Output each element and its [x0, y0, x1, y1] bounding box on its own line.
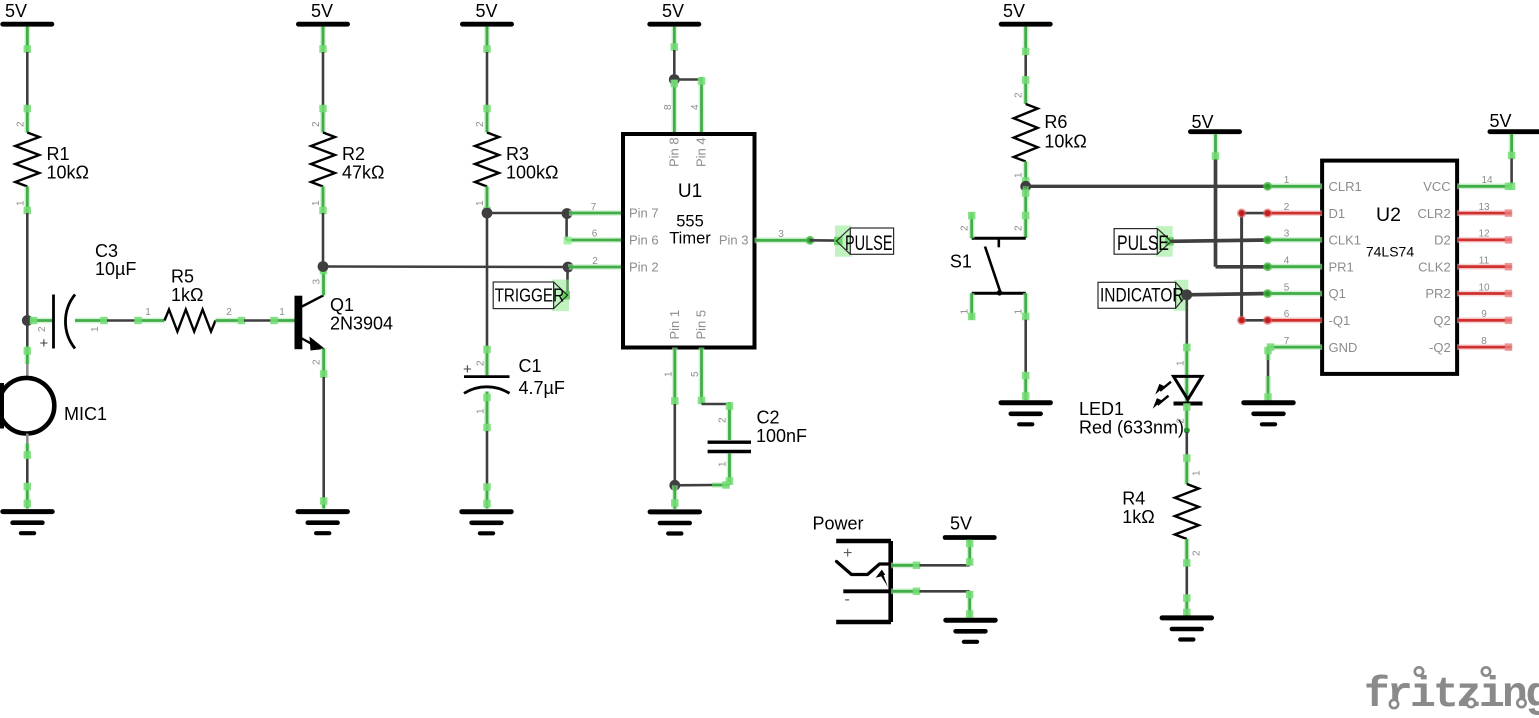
svg-text:1: 1	[717, 461, 728, 467]
svg-text:R5: R5	[171, 267, 194, 287]
pin	[320, 497, 328, 508]
wire	[322, 52, 325, 106]
svg-text:Pin 1: Pin 1	[667, 310, 682, 340]
wire	[1216, 160, 1268, 267]
resistor R3	[475, 105, 559, 215]
node junction pin2	[563, 262, 574, 273]
svg-text:-: -	[845, 591, 850, 608]
svg-text:Pin 5: Pin 5	[694, 310, 709, 340]
wire	[675, 481, 730, 489]
pin	[24, 483, 32, 509]
svg-text:100nF: 100nF	[756, 426, 807, 446]
svg-text:1: 1	[145, 307, 151, 318]
net label TRIGGER	[493, 280, 570, 312]
wire	[1171, 240, 1267, 241]
wire	[322, 213, 325, 267]
power 5V rail (R6 column)	[1001, 1, 1050, 24]
wire	[966, 540, 974, 566]
svg-text:TRIGGER: TRIGGER	[495, 285, 564, 306]
svg-text:12: 12	[1478, 229, 1490, 240]
svg-text:Pin 4: Pin 4	[694, 137, 709, 167]
svg-text:8: 8	[663, 104, 674, 110]
svg-text:2: 2	[592, 256, 598, 267]
svg-text:4: 4	[1284, 256, 1290, 267]
svg-text:10: 10	[1478, 282, 1490, 293]
svg-text:3: 3	[1284, 229, 1290, 240]
svg-text:1: 1	[90, 326, 101, 332]
wire	[26, 459, 29, 483]
capacitor C1 4.7uF	[463, 346, 565, 432]
svg-text:Timer: Timer	[669, 230, 711, 248]
svg-text:1: 1	[1014, 172, 1025, 178]
svg-text:1kΩ: 1kΩ	[1122, 507, 1154, 527]
svg-text:1: 1	[1284, 175, 1290, 186]
wire	[1186, 567, 1189, 596]
power 5V rail (VCC)	[1489, 111, 1539, 132]
pin	[671, 485, 679, 509]
svg-text:2N3904: 2N3904	[330, 314, 393, 334]
wire	[322, 377, 325, 498]
wire	[810, 239, 837, 242]
svg-text:2: 2	[312, 359, 323, 365]
switch S1	[950, 212, 1030, 321]
wire	[673, 50, 676, 80]
wire	[486, 52, 489, 106]
svg-text:2: 2	[960, 225, 971, 231]
pin 6 leg U2 -Q1	[1242, 309, 1323, 325]
power 5V rail (jack)	[945, 514, 994, 538]
svg-text:5V: 5V	[311, 1, 333, 21]
svg-text:2: 2	[15, 121, 26, 127]
wire	[486, 27, 489, 52]
wire	[486, 213, 489, 346]
svg-text:LED1: LED1	[1079, 399, 1124, 419]
svg-text:PULSE: PULSE	[1117, 232, 1169, 255]
pin	[671, 27, 679, 51]
resistor R1	[15, 105, 89, 215]
svg-text:Power: Power	[813, 514, 864, 534]
pin 7 leg U1	[569, 202, 623, 213]
pin 13 leg U2	[1457, 202, 1512, 217]
svg-text:D1: D1	[1329, 206, 1346, 221]
svg-text:CLR2: CLR2	[1417, 206, 1450, 221]
op-amp U1 555 timer box	[623, 134, 755, 348]
wire	[1024, 55, 1027, 76]
wire	[322, 27, 325, 52]
LED LED1	[1079, 344, 1203, 438]
pin 5 leg U1	[690, 348, 705, 405]
svg-text:fritzing: fritzing	[1364, 670, 1539, 718]
svg-text:2: 2	[475, 121, 486, 127]
svg-text:2: 2	[475, 360, 486, 366]
wire	[1240, 213, 1243, 320]
node junction INDICATOR/Q1/LED	[1181, 289, 1192, 300]
power 5V rail (R1 column)	[3, 1, 52, 24]
wire	[920, 590, 970, 593]
microphone MIC1	[0, 346, 107, 459]
svg-text:5V: 5V	[950, 514, 972, 534]
svg-text:-Q2: -Q2	[1429, 340, 1451, 355]
pin	[1212, 134, 1220, 160]
net label INDICATOR	[1098, 280, 1189, 311]
pin	[483, 483, 491, 508]
pin 3 leg U2 CLK1	[1263, 229, 1322, 245]
pin 1 leg U1	[664, 348, 679, 405]
svg-text:Pin 6: Pin 6	[629, 233, 659, 248]
svg-text:2: 2	[1191, 550, 1202, 556]
ground (MIC1)	[3, 512, 52, 534]
wire	[26, 52, 29, 106]
wire	[966, 591, 974, 618]
pin 2 leg U1	[568, 256, 623, 267]
node junction R6/S1/CLR1	[1020, 181, 1031, 192]
pin 6 leg U1	[564, 229, 624, 245]
svg-text:S1: S1	[950, 252, 972, 272]
pin 8 leg U2	[1457, 336, 1512, 351]
svg-text:2: 2	[1014, 92, 1025, 98]
ground (R4)	[1162, 618, 1211, 640]
pin	[483, 27, 491, 53]
svg-text:GND: GND	[1329, 340, 1358, 355]
power 5V rail (PR1)	[1190, 112, 1239, 132]
svg-text:CLK2: CLK2	[1418, 259, 1451, 274]
wire	[566, 267, 569, 296]
svg-text:1kΩ: 1kΩ	[171, 285, 203, 305]
node junction R3/pin7	[482, 208, 493, 219]
pin 5 leg U2 Q1	[1263, 282, 1322, 298]
pin 7 leg U2 GND	[1267, 336, 1322, 351]
capacitor C3	[30, 241, 137, 352]
svg-text:2: 2	[37, 326, 48, 332]
wire	[1186, 432, 1189, 455]
svg-text:1: 1	[1175, 360, 1186, 366]
wire	[1026, 185, 1268, 188]
pin	[1022, 27, 1029, 56]
capacitor C2 100nF	[708, 402, 807, 485]
power 5V rail (R3 column)	[462, 1, 511, 24]
pin 9 leg U2	[1457, 309, 1512, 324]
wire	[486, 431, 489, 484]
pin	[319, 27, 327, 53]
node junction pin1/C2	[669, 480, 680, 491]
svg-text:Q1: Q1	[1329, 286, 1346, 301]
wire	[673, 27, 676, 50]
svg-text:7: 7	[591, 202, 597, 213]
svg-text:R4: R4	[1122, 489, 1145, 509]
wire	[1186, 295, 1189, 344]
svg-text:13: 13	[1478, 202, 1490, 213]
pin 10 leg U2	[1457, 282, 1512, 297]
svg-text:2: 2	[1014, 225, 1025, 231]
svg-text:1: 1	[279, 307, 285, 318]
svg-text:VCC: VCC	[1423, 179, 1450, 194]
svg-text:Q1: Q1	[330, 295, 354, 315]
svg-text:5V: 5V	[1489, 111, 1511, 131]
svg-text:9: 9	[1481, 309, 1487, 320]
flip-flop U2 74LS74 box	[1322, 161, 1457, 374]
svg-text:74LS74: 74LS74	[1366, 243, 1414, 259]
net label PULSE (to U2)	[1114, 226, 1174, 257]
svg-text:555: 555	[676, 213, 704, 231]
pin 4 leg U2 PR1	[1263, 256, 1322, 272]
svg-text:11: 11	[1479, 256, 1490, 267]
wire	[702, 403, 730, 406]
net label PULSE (U1 output)	[834, 226, 894, 257]
svg-text:8: 8	[1481, 336, 1487, 347]
svg-text:10kΩ: 10kΩ	[1044, 132, 1086, 152]
svg-text:-Q1: -Q1	[1329, 313, 1351, 328]
svg-text:5: 5	[1284, 282, 1290, 293]
transistor Q1 2N3904	[270, 267, 393, 378]
svg-text:PR1: PR1	[1329, 259, 1354, 274]
resistor R6	[1014, 76, 1087, 186]
svg-text:100kΩ: 100kΩ	[506, 163, 559, 183]
ground (power jack)	[946, 620, 995, 642]
svg-text:Q2: Q2	[1433, 313, 1450, 328]
pin 3 leg U1	[755, 229, 815, 245]
svg-text:Pin 8: Pin 8	[667, 137, 682, 167]
ground (U1)	[650, 512, 699, 534]
wire	[1022, 186, 1029, 238]
pin 11 leg U2	[1457, 256, 1512, 271]
wire	[1024, 320, 1027, 373]
svg-text:1: 1	[1014, 309, 1025, 315]
svg-text:C1: C1	[519, 356, 542, 376]
pin 1 leg U2 CLR1	[1263, 175, 1322, 191]
pin - power jack	[891, 588, 920, 596]
pin 2 leg U2 D1	[1242, 202, 1323, 218]
svg-text:7: 7	[1284, 336, 1290, 347]
wire	[107, 319, 135, 322]
wire	[1024, 27, 1027, 55]
ground (C1)	[462, 512, 511, 534]
svg-text:CLK1: CLK1	[1329, 233, 1362, 248]
pin + power jack	[891, 562, 920, 570]
svg-text:5V: 5V	[1191, 112, 1213, 132]
svg-text:1: 1	[1191, 470, 1202, 476]
wire	[244, 319, 271, 322]
node junction pin7/pin6	[562, 208, 573, 219]
wire	[565, 214, 568, 241]
wire	[1187, 294, 1268, 295]
svg-text:+: +	[40, 335, 49, 352]
svg-text:Pin 2: Pin 2	[629, 260, 659, 275]
svg-text:1: 1	[475, 408, 486, 414]
resistor R5	[134, 267, 245, 332]
svg-text:4: 4	[690, 104, 701, 110]
wire	[487, 212, 566, 215]
svg-text:1: 1	[15, 200, 26, 206]
svg-text:D2: D2	[1434, 233, 1451, 248]
svg-text:3: 3	[778, 229, 784, 240]
svg-text:10kΩ: 10kΩ	[47, 163, 89, 183]
node red endpoint -Q1	[1237, 316, 1246, 325]
svg-text:1: 1	[960, 309, 971, 315]
svg-text:U2: U2	[1376, 204, 1401, 226]
svg-text:CLR1: CLR1	[1329, 179, 1362, 194]
svg-text:14: 14	[1481, 175, 1493, 186]
pin 14 leg U2 VCC	[1457, 175, 1512, 190]
wire	[26, 322, 29, 346]
svg-text:1: 1	[311, 200, 322, 206]
node junction Q1 collector	[318, 261, 329, 272]
svg-text:C3: C3	[95, 241, 118, 261]
svg-text:+: +	[843, 545, 852, 562]
svg-text:R2: R2	[342, 144, 365, 164]
resistor R2	[311, 105, 384, 215]
svg-text:6: 6	[592, 229, 598, 240]
pin	[1022, 372, 1029, 400]
wire	[1264, 347, 1272, 401]
power 5V rail (R2 column)	[298, 1, 347, 24]
svg-text:10µF: 10µF	[95, 259, 136, 279]
pin 8 leg U1	[663, 80, 678, 135]
svg-text:PR2: PR2	[1425, 286, 1450, 301]
svg-text:C2: C2	[757, 408, 780, 428]
svg-text:5V: 5V	[5, 1, 27, 21]
fritzing watermark	[1364, 667, 1539, 718]
svg-text:R6: R6	[1044, 112, 1067, 132]
svg-text:5V: 5V	[475, 1, 497, 21]
svg-text:PULSE: PULSE	[845, 232, 893, 255]
wire	[920, 564, 970, 567]
wire	[26, 213, 29, 321]
svg-text:Pin 3: Pin 3	[719, 233, 749, 248]
wire	[26, 27, 29, 52]
svg-text:5: 5	[690, 371, 701, 377]
ground (Q1 emitter)	[298, 512, 347, 534]
svg-text:R3: R3	[506, 144, 529, 164]
svg-text:2: 2	[311, 121, 322, 127]
svg-text:1: 1	[664, 371, 675, 377]
power 5V rail (U1 column)	[650, 1, 699, 24]
svg-text:1: 1	[475, 200, 486, 206]
svg-text:U1: U1	[678, 181, 702, 202]
svg-text:2: 2	[1284, 202, 1290, 213]
wire	[323, 265, 568, 268]
pin	[24, 27, 32, 53]
wire	[1508, 134, 1516, 190]
resistor R4	[1122, 454, 1202, 567]
svg-text:Red (633nm): Red (633nm)	[1079, 418, 1184, 438]
connector Power	[813, 514, 892, 623]
svg-text:2: 2	[717, 417, 728, 423]
svg-text:5V: 5V	[662, 1, 684, 21]
pin	[1183, 594, 1191, 616]
svg-text:2: 2	[226, 307, 232, 318]
wire	[673, 404, 676, 485]
svg-text:3: 3	[312, 279, 323, 285]
svg-text:4.7µF: 4.7µF	[519, 378, 565, 398]
svg-text:5V: 5V	[1003, 1, 1025, 21]
svg-text:MIC1: MIC1	[64, 404, 107, 424]
svg-text:Pin 7: Pin 7	[629, 206, 659, 221]
svg-text:INDICATOR: INDICATOR	[1100, 286, 1184, 307]
node junction pin8/pin4	[669, 74, 680, 85]
pin 12 leg U2	[1457, 229, 1512, 244]
wire	[674, 78, 701, 81]
svg-text:R1: R1	[47, 144, 70, 164]
svg-text:6: 6	[1284, 309, 1290, 320]
ground (U2)	[1244, 403, 1293, 425]
svg-text:47kΩ: 47kΩ	[342, 163, 384, 183]
pin 4 leg U1	[690, 77, 705, 134]
ground (S1)	[1001, 403, 1050, 425]
node red endpoint D1	[1237, 209, 1246, 218]
node junction R1/C3/MIC1	[22, 315, 33, 326]
